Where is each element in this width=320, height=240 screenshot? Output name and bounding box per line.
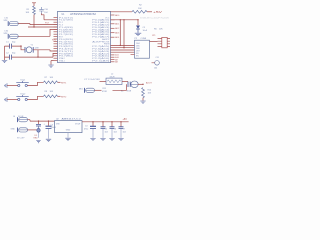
svg-text:C7: C7 bbox=[123, 129, 125, 131]
svg-text:SPK: SPK bbox=[4, 33, 9, 35]
svg-text:470R: 470R bbox=[102, 91, 107, 93]
ground C3 bbox=[46, 139, 51, 141]
svg-text:10K: 10K bbox=[26, 12, 30, 14]
svg-text:XTAL1: XTAL1 bbox=[59, 60, 66, 63]
wire bus1 bbox=[120, 20, 124, 48]
ground C4 bbox=[90, 138, 95, 140]
op-amp U1 microcontroller AT89S52 bbox=[58, 11, 111, 62]
svg-text:AT89S52/AT89C52: AT89S52/AT89C52 bbox=[70, 13, 97, 16]
svg-text:AOUT: AOUT bbox=[146, 81, 153, 84]
resistor R7 bbox=[44, 81, 58, 84]
wire Key1 right bbox=[27, 82, 43, 85]
svg-text:104: 104 bbox=[154, 68, 157, 70]
wire U2 out rail bbox=[82, 121, 129, 123]
crystal Y1 bbox=[25, 44, 39, 52]
wire R2 to +5V bbox=[147, 11, 152, 13]
svg-text:+5V: +5V bbox=[123, 118, 128, 121]
svg-text:J4: J4 bbox=[13, 116, 15, 118]
ground C5 bbox=[100, 138, 105, 140]
svg-text:VIN: VIN bbox=[56, 124, 60, 126]
svg-text:GND: GND bbox=[11, 129, 16, 131]
diode D3 bbox=[136, 20, 140, 33]
svg-text:Key1: Key1 bbox=[21, 80, 27, 82]
svg-text:12M: 12M bbox=[35, 47, 39, 49]
ground U2 bbox=[67, 133, 69, 138]
ground U1 bbox=[51, 61, 54, 65]
svg-text:P2.1(A9): P2.1(A9) bbox=[92, 60, 110, 63]
junction bbox=[142, 84, 143, 85]
connector J5 bbox=[152, 35, 170, 48]
ground C7 bbox=[118, 138, 123, 140]
svg-text:470u: 470u bbox=[84, 128, 88, 130]
capacitor C7 bbox=[119, 122, 126, 138]
ground R14 bbox=[142, 98, 144, 101]
svg-text:104: 104 bbox=[123, 131, 126, 133]
resistor R2 bbox=[132, 5, 147, 14]
capacitor C11 bbox=[152, 57, 160, 70]
wire MK1 bbox=[95, 89, 102, 91]
wire Key1 left bbox=[7, 85, 18, 87]
svg-text:KEY1: KEY1 bbox=[61, 82, 67, 84]
svg-text:C4: C4 bbox=[85, 126, 87, 128]
U1 right pin stubs bbox=[111, 15, 115, 62]
wire caps to gnd bus bbox=[5, 46, 10, 60]
svg-text:1N4148 C=10uF R=10K: 1N4148 C=10uF R=10K bbox=[140, 18, 170, 20]
ground left Key2 bbox=[5, 97, 7, 102]
svg-text:+5V: +5V bbox=[153, 11, 163, 14]
capacitor C12 bbox=[36, 121, 41, 138]
microphone MK1 bbox=[85, 88, 95, 93]
svg-text:STC-ISP: STC-ISP bbox=[17, 138, 25, 140]
wire J4 bbox=[28, 120, 55, 121]
svg-text:104: 104 bbox=[114, 131, 117, 133]
svg-text:104: 104 bbox=[105, 131, 108, 133]
wire C1 to XTAL bbox=[12, 46, 25, 50]
resistor R14 bbox=[142, 88, 145, 98]
power flag VCC bbox=[32, 3, 36, 6]
svg-text:220uF: 220uF bbox=[51, 127, 57, 129]
svg-text:33uH: 33uH bbox=[110, 76, 115, 78]
svg-text:C6: C6 bbox=[114, 129, 116, 131]
wire C2 to XTAL bbox=[12, 50, 38, 57]
junction bbox=[120, 45, 121, 46]
wire to label Key2 bbox=[58, 95, 61, 97]
wire LS1 to U1 bbox=[18, 24, 57, 25]
svg-text:GND: GND bbox=[66, 130, 71, 132]
resonator B1 bbox=[121, 81, 138, 93]
wire C10 to U1 bbox=[42, 13, 58, 19]
svg-text:10uF: 10uF bbox=[143, 30, 148, 32]
junction bbox=[33, 26, 34, 27]
svg-text:MK1: MK1 bbox=[79, 88, 83, 90]
junction bbox=[38, 120, 39, 121]
junction bbox=[37, 56, 38, 57]
regulator U2 bbox=[55, 117, 83, 132]
inductor L2 bbox=[106, 74, 122, 85]
wire to label Key1 bbox=[58, 81, 61, 83]
capacitor C6 bbox=[110, 122, 117, 138]
U1 right net labels bbox=[115, 14, 120, 64]
plug J5b bbox=[18, 128, 28, 133]
svg-text:C11: C11 bbox=[156, 57, 159, 59]
capacitor C10 bbox=[39, 7, 49, 14]
plug LS2 bbox=[8, 34, 18, 39]
wire P2 to J5 bbox=[150, 41, 158, 43]
wire R11 to B1 bbox=[113, 84, 127, 90]
svg-text:Key2: Key2 bbox=[21, 94, 27, 96]
capacitor C3 bbox=[44, 121, 57, 139]
capacitor C5 bbox=[101, 122, 108, 138]
wire J5b bbox=[28, 129, 37, 131]
wire EA to R2 bbox=[111, 11, 133, 13]
wire RST run bbox=[111, 19, 139, 21]
svg-text:10K: 10K bbox=[138, 8, 142, 10]
svg-text:KEY2: KEY2 bbox=[61, 96, 67, 98]
ground D3 bbox=[135, 33, 141, 35]
junction bbox=[120, 19, 121, 20]
connector P2 bbox=[135, 38, 150, 58]
wire Key2 right bbox=[27, 96, 43, 99]
wire XTAL to U1 pins bbox=[38, 50, 58, 57]
capacitor C2 bbox=[6, 53, 16, 60]
junction rail bbox=[92, 121, 93, 122]
ground left Key1 bbox=[5, 83, 7, 88]
svg-text:VOUT: VOUT bbox=[75, 124, 81, 126]
wire R1 to U1 row bbox=[28, 15, 58, 28]
wire Key2 left bbox=[7, 99, 18, 101]
wire P2 rows bbox=[111, 45, 135, 52]
wire LS2 to U1 bbox=[18, 29, 57, 36]
svg-text:C7 2.2uF/16V: C7 2.2uF/16V bbox=[84, 79, 101, 81]
resistor R8 bbox=[44, 95, 58, 98]
plug LS1 bbox=[8, 21, 18, 26]
ground C6 bbox=[109, 138, 114, 140]
U1 left pin stubs bbox=[54, 17, 58, 60]
wire to L2 bbox=[100, 80, 107, 82]
svg-text:RED: RED bbox=[34, 137, 39, 139]
svg-text:CON8: CON8 bbox=[141, 38, 147, 40]
plug J4 bbox=[18, 117, 28, 122]
wire B1 to node bbox=[138, 83, 143, 85]
switch S2 Key2 bbox=[16, 94, 28, 101]
wire L2 to B1 bbox=[122, 80, 128, 82]
capacitor C4 bbox=[84, 122, 96, 138]
P2 left stubs bbox=[131, 54, 135, 56]
ground D1 bbox=[36, 141, 41, 143]
capacitor C1 bbox=[6, 41, 16, 48]
svg-text:SPK: SPK bbox=[4, 20, 9, 22]
resistor R1 bbox=[26, 6, 36, 15]
svg-text:C5: C5 bbox=[105, 129, 107, 131]
switch S1 Key1 bbox=[16, 80, 28, 87]
svg-text:AMS1117-5.0: AMS1117-5.0 bbox=[62, 117, 82, 120]
ground bbox=[2, 61, 7, 63]
